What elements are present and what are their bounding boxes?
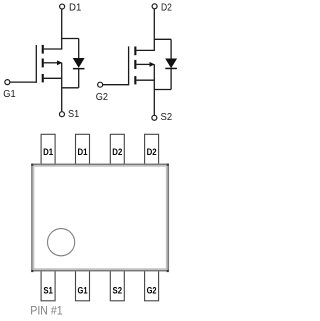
body stub Q1 bbox=[44, 62, 58, 64]
arrow on body stub Q1 (points right) bbox=[57, 60, 62, 65]
body diode D of Q2: anode top triangle bbox=[165, 59, 177, 69]
terminal circle S1 bbox=[59, 112, 64, 117]
wire: diode branch top horizontal bbox=[62, 38, 79, 40]
body stub Q2 bbox=[136, 63, 150, 65]
channel segment Q1 source tick bbox=[42, 74, 44, 82]
channel segment Q2 drain tick bbox=[134, 47, 136, 56]
svg-text:D1: D1 bbox=[69, 2, 81, 14]
package corner dot top-left bbox=[31, 164, 33, 166]
wire: diode vertical upper Q2 bbox=[170, 39, 172, 59]
wire: diode vertical lower bbox=[78, 69, 80, 88]
wire: source vertical to S1 bbox=[61, 63, 63, 112]
wire: D2 lead vertical bbox=[153, 9, 155, 51]
gate bar Q1 bbox=[35, 45, 37, 83]
svg-text:D2: D2 bbox=[147, 147, 157, 157]
channel segment Q1 body tick bbox=[42, 59, 44, 68]
gate bar Q2 bbox=[128, 46, 130, 85]
wire: G2 lead horizontal bbox=[103, 84, 129, 86]
pin 1 indicator circle bbox=[48, 229, 75, 256]
pin 3 box (bottom, S2) bbox=[110, 270, 124, 301]
wire: D1 lead vertical bbox=[61, 9, 63, 49]
svg-text:D2: D2 bbox=[161, 2, 172, 14]
MOSFET Q1 (left P-channel transistor) bbox=[10, 9, 79, 111]
body diode D of Q1: cathode bar bbox=[73, 68, 85, 70]
terminal circle D2 bbox=[152, 4, 157, 9]
svg-text:PIN #1: PIN #1 bbox=[30, 306, 62, 318]
terminal circle G1 bbox=[5, 80, 10, 85]
wire: source vertical to S2 bbox=[153, 64, 155, 115]
svg-text:D2: D2 bbox=[112, 147, 122, 157]
channel segment Q2 body tick bbox=[134, 60, 136, 69]
body diode D of Q1: anode top triangle bbox=[73, 58, 85, 68]
arrow on body stub Q2 (points right) bbox=[150, 62, 155, 67]
pin 6 box (top, D2) bbox=[110, 134, 124, 165]
pin 1 box (bottom, S1) bbox=[41, 270, 55, 301]
wire: diode vertical upper bbox=[78, 39, 80, 59]
terminal circle D1 bbox=[60, 4, 65, 9]
pin 5 box (top, D2) bbox=[145, 134, 159, 165]
pin 8 box (top, D1) bbox=[41, 134, 55, 165]
channel segment Q2 source tick bbox=[134, 76, 136, 84]
svg-text:D1: D1 bbox=[78, 147, 88, 157]
pin 7 box (top, D1) bbox=[76, 134, 90, 165]
channel segment Q1 drain tick bbox=[42, 45, 44, 54]
package corner dot top-right bbox=[167, 164, 169, 166]
package body outline outer bbox=[32, 164, 168, 270]
terminal circle S2 bbox=[152, 115, 157, 120]
pin 4 box (bottom, G2) bbox=[145, 270, 159, 301]
package corner dot bottom-left bbox=[31, 270, 33, 272]
svg-text:G1: G1 bbox=[78, 285, 88, 295]
svg-text:S2: S2 bbox=[161, 111, 173, 123]
svg-text:S2: S2 bbox=[113, 285, 123, 295]
wire: diode vertical lower Q2 bbox=[170, 69, 172, 90]
wire: diode return bottom horizontal bbox=[62, 87, 79, 89]
svg-text:D1: D1 bbox=[43, 147, 53, 157]
svg-text:G2: G2 bbox=[96, 91, 108, 103]
svg-text:G1: G1 bbox=[3, 88, 16, 100]
source stub Q1 bbox=[44, 77, 62, 79]
drain stub Q1 bbox=[44, 48, 62, 50]
package corner dot bottom-right bbox=[167, 270, 169, 272]
SO-8 package body fill bbox=[31, 164, 169, 271]
wire: G1 lead horizontal bbox=[10, 81, 36, 83]
wire: diode branch top horizontal Q2 bbox=[154, 38, 171, 40]
svg-text:S1: S1 bbox=[43, 285, 53, 295]
wire: diode return bottom horizontal Q2 bbox=[154, 89, 171, 91]
svg-text:S1: S1 bbox=[68, 108, 79, 120]
body diode D of Q2: cathode bar bbox=[165, 68, 177, 70]
source stub Q2 bbox=[136, 79, 154, 81]
pin 2 box (bottom, G1) bbox=[76, 270, 90, 301]
MOSFET Q2 (right P-channel transistor) bbox=[103, 9, 171, 115]
terminal circle G2 bbox=[98, 82, 103, 87]
package body outline inner highlight bbox=[34, 166, 167, 269]
svg-text:G2: G2 bbox=[147, 285, 157, 295]
drain stub Q2 bbox=[136, 49, 154, 51]
